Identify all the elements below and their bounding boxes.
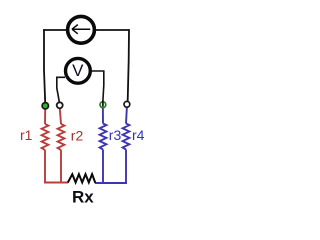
svg-text:Rx: Rx <box>72 188 94 207</box>
resistor r1 body <box>42 109 49 184</box>
wire: top-left horizontal from left vertical to current source <box>43 29 66 31</box>
wire: right vertical down to node 4 <box>128 29 129 104</box>
node 1 terminal (green) <box>42 103 48 109</box>
node 2 terminal <box>57 102 63 108</box>
current source U1 <box>68 16 95 43</box>
svg-text:r4: r4 <box>132 127 145 143</box>
svg-text:V: V <box>72 61 84 80</box>
svg-text:r1: r1 <box>20 127 33 143</box>
wire: left vertical down to node 1 <box>44 29 45 102</box>
svg-text:r3: r3 <box>109 127 122 143</box>
resistor r4 body <box>123 107 130 184</box>
resistor Rx body <box>68 174 96 183</box>
resistor r2 body <box>58 109 65 184</box>
wire: blue bottom bus from Rx <box>95 182 127 184</box>
resistor r3 body <box>100 107 107 184</box>
wire: top-right horizontal from current source to right vertical <box>96 29 130 31</box>
node 3 terminal <box>100 102 106 108</box>
wire: stub through node 3 <box>102 101 104 107</box>
wire: red bottom bus to Rx <box>44 182 68 184</box>
svg-text:r2: r2 <box>71 128 84 144</box>
node 4 terminal <box>124 101 130 107</box>
wire: voltmeter left lead down to node 2 <box>57 77 65 102</box>
wire: voltmeter right lead down to node 3 <box>92 71 104 101</box>
voltmeter V1 <box>66 58 91 83</box>
